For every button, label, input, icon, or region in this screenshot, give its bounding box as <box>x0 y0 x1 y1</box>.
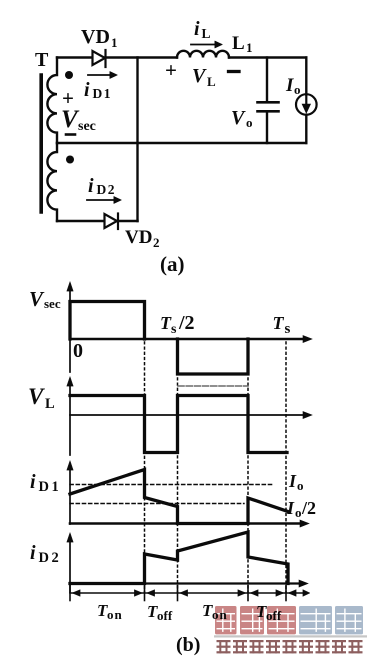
label Vsec <box>61 106 96 134</box>
svg-text:(a): (a) <box>160 252 185 276</box>
svg-text:i: i <box>194 18 200 40</box>
timing ruler tick Ton end <box>144 586 146 601</box>
svg-text:D1: D1 <box>39 479 62 495</box>
timing ruler base line <box>70 592 305 594</box>
current arrow iD2 <box>87 197 122 204</box>
svg-text:on: on <box>107 607 123 622</box>
watermark small characters row <box>217 640 363 653</box>
svg-text:i: i <box>88 175 94 197</box>
svg-text:o: o <box>297 478 304 493</box>
label Ts/2 <box>160 312 195 337</box>
svg-text:1: 1 <box>246 40 253 55</box>
svg-text:i: i <box>30 471 36 493</box>
iD1 axis horizontal <box>70 520 309 527</box>
svg-text:i: i <box>30 542 36 564</box>
dotted timing line at Ton end <box>144 342 146 592</box>
svg-text:T: T <box>273 313 285 333</box>
VL waveform <box>70 396 287 453</box>
VL axis horizontal <box>70 412 312 419</box>
svg-text:D2: D2 <box>39 550 62 566</box>
svg-text:VD: VD <box>81 26 110 48</box>
polarity dot lower winding <box>66 156 74 164</box>
iD2 waveform <box>70 532 288 584</box>
inductor L1 <box>177 51 229 58</box>
wire bottom rail right (VD2 to node column) <box>118 220 138 222</box>
svg-text:/2: /2 <box>301 498 316 518</box>
label Ton second <box>202 601 228 622</box>
wire top rail right (inductor to right corner) <box>229 56 306 58</box>
wire right branch upper (to current source) <box>305 58 307 95</box>
label Vo <box>231 107 253 130</box>
scan shadow line under negative pulse <box>178 385 248 387</box>
label iL <box>194 18 211 41</box>
label Io (current source) <box>285 75 301 97</box>
transformer core bar <box>39 75 43 212</box>
label Io/2 (level) <box>286 498 316 520</box>
svg-text:s: s <box>285 321 291 337</box>
svg-text:2: 2 <box>153 235 160 250</box>
capacitor branch lower wire <box>266 113 268 144</box>
svg-text:I: I <box>286 498 295 518</box>
svg-text:0: 0 <box>73 340 83 362</box>
Vsec waveform negative pulse <box>178 339 249 374</box>
wire top rail left (transformer top to diode VD1) <box>57 56 92 58</box>
wire middle rail (center tap to output return) <box>57 142 306 144</box>
span arrowheads Toff first <box>147 590 188 597</box>
dashed level line Io/2 <box>70 503 244 505</box>
svg-text:L: L <box>232 33 245 54</box>
watermark logo big characters <box>215 606 363 634</box>
iD2 axis horizontal <box>70 580 308 587</box>
iD1 axis vertical <box>67 461 73 525</box>
label Ton first <box>97 601 123 622</box>
label VD1 <box>81 26 118 50</box>
svg-text:L: L <box>207 74 216 89</box>
wire top rail middle (VD1 to inductor) <box>106 56 178 58</box>
svg-text:VD: VD <box>125 227 152 248</box>
label iD1 (waveform) <box>30 471 61 495</box>
label Toff second <box>256 602 282 623</box>
svg-text:o: o <box>246 115 253 130</box>
svg-text:D1: D1 <box>93 86 113 101</box>
timing ruler tick second Ton end <box>247 586 249 601</box>
label VL <box>192 65 216 89</box>
label iD2 <box>88 175 116 197</box>
svg-text:off: off <box>157 608 173 623</box>
current arrow iD1 <box>88 72 118 79</box>
label iD2 (waveform) <box>30 542 61 566</box>
svg-text:I: I <box>285 75 294 96</box>
current source Io <box>296 94 317 115</box>
svg-text:L: L <box>45 396 55 412</box>
label Toff first <box>147 602 173 623</box>
label L1 <box>232 33 253 55</box>
timing ruler tick t=0 <box>69 586 71 601</box>
span arrowheads Toff second <box>250 590 296 597</box>
dashed level line Io <box>70 484 272 486</box>
svg-text:V: V <box>231 107 246 129</box>
span arrowheads Ton second <box>238 590 246 597</box>
svg-text:sec: sec <box>44 296 61 311</box>
svg-text:T: T <box>35 49 49 71</box>
svg-text:sec: sec <box>78 119 96 134</box>
span arrowheads Ton first <box>72 590 143 597</box>
dotted timing line at Ts <box>285 342 287 592</box>
wire right branch lower (current source to bottom rail) <box>305 115 307 143</box>
label Io (level) <box>288 471 304 493</box>
polarity dot upper winding <box>65 71 73 79</box>
svg-text:L: L <box>202 26 211 41</box>
diode VD2 <box>105 214 119 230</box>
minus sign Vsec <box>66 133 75 136</box>
svg-text:V: V <box>192 65 207 87</box>
svg-text:(b): (b) <box>176 634 200 656</box>
Vsec axis vertical <box>67 282 73 373</box>
svg-text:V: V <box>28 384 45 409</box>
svg-text:I: I <box>288 471 297 491</box>
node column joining VD1/VD2 cathode rail <box>136 58 138 222</box>
capacitor branch upper wire <box>266 58 268 102</box>
label iD1 <box>84 79 112 101</box>
current arrow iL <box>191 41 223 48</box>
svg-text:D2: D2 <box>97 182 117 197</box>
svg-text:s: s <box>171 322 177 337</box>
label VL (waveform) <box>28 384 55 412</box>
transformer T secondary winding upper <box>47 58 57 144</box>
capacitor Vo <box>258 102 279 111</box>
iD1 waveform <box>70 470 288 524</box>
watermark underline rule <box>214 635 367 637</box>
timing ruler tick Ts <box>285 586 287 601</box>
Vsec waveform positive pulse <box>70 302 145 340</box>
Vsec axis horizontal <box>70 336 312 343</box>
dotted timing line at Ts/2 <box>177 378 179 592</box>
VL axis vertical <box>67 377 73 456</box>
diode VD1 <box>93 50 106 67</box>
transformer T secondary winding lower <box>47 143 57 221</box>
svg-text:i: i <box>84 79 90 101</box>
timing ruler tick Ts/2 <box>177 586 179 601</box>
svg-text:o: o <box>295 505 302 520</box>
label Vsec (waveform) <box>29 287 61 311</box>
svg-text:V: V <box>29 287 45 311</box>
dotted timing line at second Ton end <box>247 378 249 592</box>
svg-text:o: o <box>294 82 301 97</box>
label Ts <box>273 313 291 337</box>
label VD2 <box>125 227 160 250</box>
iD2 axis vertical <box>67 533 73 593</box>
svg-text:/2: /2 <box>178 312 195 334</box>
svg-text:1: 1 <box>111 35 118 50</box>
svg-text:+: + <box>165 58 177 82</box>
minus sign VL <box>229 70 240 73</box>
wire bottom rail left (transformer bottom to diode VD2) <box>57 220 104 222</box>
